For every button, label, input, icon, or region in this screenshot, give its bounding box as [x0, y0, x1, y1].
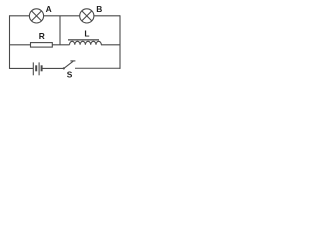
switch S pivot dot: [63, 67, 65, 69]
wire top-left segment: [10, 15, 30, 17]
wire resistor to coil: [52, 44, 69, 46]
wire left edge: [9, 15, 11, 69]
lamp A: [29, 9, 43, 23]
svg-text:R: R: [39, 31, 45, 41]
switch S blade: [64, 61, 73, 68]
svg-text:A: A: [46, 4, 52, 14]
inductor core bar: [68, 39, 99, 40]
wire coil to right edge: [101, 44, 120, 46]
battery cell1 short plate: [35, 65, 37, 71]
switch S contact tick: [70, 60, 75, 62]
wire middle-left segment: [10, 44, 31, 46]
battery cell2 short plate: [41, 65, 43, 71]
wire between lamp A and lamp B: [44, 15, 80, 17]
resistor R: [31, 43, 53, 48]
wire center vertical: [59, 16, 61, 45]
svg-text:L: L: [84, 29, 89, 39]
svg-text:B: B: [96, 4, 102, 14]
battery cell2 long plate: [38, 62, 40, 75]
svg-text:S: S: [67, 69, 73, 79]
wire switch to right edge: [75, 67, 120, 69]
lamp B: [80, 9, 94, 23]
battery cell1 long plate: [32, 62, 34, 75]
wire top-right segment: [94, 15, 120, 17]
inductor L coil: [70, 41, 102, 45]
wire battery to switch: [42, 67, 63, 69]
wire bottom-left segment: [10, 67, 34, 69]
wire right edge: [119, 15, 121, 69]
